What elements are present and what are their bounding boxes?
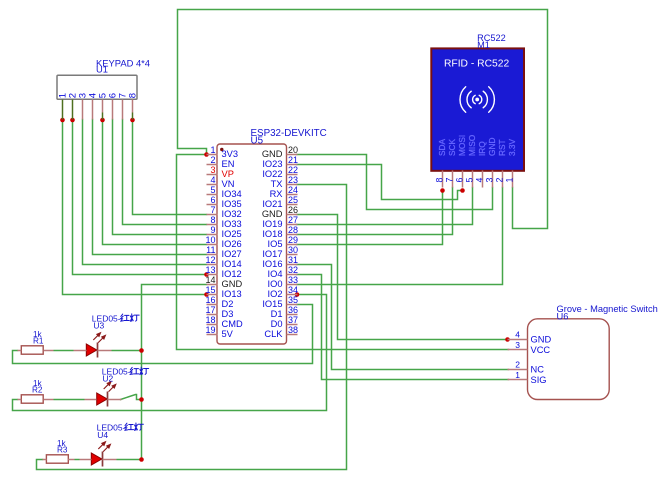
svg-text:NC: NC <box>531 364 545 374</box>
svg-text:U1: U1 <box>96 64 108 75</box>
svg-text:U4: U4 <box>97 430 108 440</box>
svg-text:14: 14 <box>205 275 215 285</box>
svg-text:MOSI: MOSI <box>457 135 467 156</box>
svg-text:GND: GND <box>262 149 283 159</box>
svg-text:SDA: SDA <box>437 138 447 156</box>
svg-text:CMD: CMD <box>222 319 243 329</box>
svg-text:GND: GND <box>222 279 243 289</box>
svg-text:4: 4 <box>475 178 485 183</box>
svg-text:D2: D2 <box>222 299 234 309</box>
svg-text:IO22: IO22 <box>262 169 282 179</box>
svg-text:1: 1 <box>515 370 520 380</box>
svg-text:M1: M1 <box>477 40 490 50</box>
svg-text:IO21: IO21 <box>262 199 282 209</box>
svg-text:EN: EN <box>222 159 235 169</box>
svg-text:IRQ: IRQ <box>477 141 487 156</box>
svg-text:3: 3 <box>210 165 215 175</box>
svg-text:IO18: IO18 <box>262 229 282 239</box>
svg-text:6: 6 <box>455 178 465 183</box>
svg-text:10: 10 <box>205 235 215 245</box>
svg-text:3.3V: 3.3V <box>507 138 517 156</box>
svg-text:IO26: IO26 <box>222 239 242 249</box>
svg-text:RX: RX <box>270 189 283 199</box>
svg-text:18: 18 <box>205 315 215 325</box>
svg-text:IO5: IO5 <box>268 239 283 249</box>
svg-text:IO14: IO14 <box>222 259 242 269</box>
svg-text:23: 23 <box>288 175 298 185</box>
svg-text:36: 36 <box>288 305 298 315</box>
svg-text:2: 2 <box>495 178 505 183</box>
svg-text:5: 5 <box>210 185 215 195</box>
svg-text:IO25: IO25 <box>222 229 242 239</box>
svg-text:8: 8 <box>435 178 445 183</box>
svg-text:28: 28 <box>288 225 298 235</box>
svg-text:22: 22 <box>288 165 298 175</box>
svg-text:GND: GND <box>262 209 283 219</box>
svg-text:5V: 5V <box>222 329 234 339</box>
svg-text:IO23: IO23 <box>262 159 282 169</box>
svg-text:SCK: SCK <box>447 138 457 156</box>
svg-text:4: 4 <box>515 330 520 340</box>
svg-text:20: 20 <box>288 145 298 155</box>
svg-text:13: 13 <box>205 265 215 275</box>
svg-text:IO35: IO35 <box>222 199 242 209</box>
svg-text:9: 9 <box>210 225 215 235</box>
svg-text:IO2: IO2 <box>268 289 283 299</box>
svg-text:IO34: IO34 <box>222 189 242 199</box>
svg-text:U2: U2 <box>102 374 113 384</box>
svg-text:2: 2 <box>515 360 520 370</box>
svg-text:GND: GND <box>487 138 497 156</box>
svg-text:11: 11 <box>206 245 215 255</box>
svg-text:IO4: IO4 <box>268 269 283 279</box>
svg-text:U5: U5 <box>251 135 264 146</box>
svg-text:IO19: IO19 <box>262 219 282 229</box>
svg-text:3V3: 3V3 <box>222 149 239 159</box>
svg-text:MISO: MISO <box>467 134 477 156</box>
svg-text:8: 8 <box>127 93 138 98</box>
svg-text:3: 3 <box>515 340 520 350</box>
svg-text:7: 7 <box>445 178 455 183</box>
svg-text:SIG: SIG <box>531 375 547 385</box>
svg-text:27: 27 <box>288 215 298 225</box>
svg-text:5: 5 <box>465 178 475 183</box>
svg-text:35: 35 <box>288 295 298 305</box>
svg-text:19: 19 <box>205 325 215 335</box>
svg-text:TX: TX <box>271 179 283 189</box>
svg-text:34: 34 <box>288 285 298 295</box>
svg-text:U6: U6 <box>557 311 569 321</box>
svg-text:RFID - RC522: RFID - RC522 <box>444 59 509 70</box>
svg-text:8: 8 <box>210 215 215 225</box>
svg-text:IO27: IO27 <box>222 249 242 259</box>
svg-text:D0: D0 <box>271 319 283 329</box>
svg-text:RST: RST <box>497 139 507 156</box>
svg-text:IO17: IO17 <box>262 249 282 259</box>
svg-text:4: 4 <box>210 175 215 185</box>
svg-text:29: 29 <box>288 235 298 245</box>
svg-text:25: 25 <box>288 195 298 205</box>
svg-text:IO16: IO16 <box>262 259 282 269</box>
svg-text:15: 15 <box>205 285 215 295</box>
svg-text:21: 21 <box>288 155 298 165</box>
svg-text:IO13: IO13 <box>222 289 242 299</box>
svg-text:30: 30 <box>288 245 298 255</box>
svg-text:7: 7 <box>210 205 215 215</box>
svg-text:33: 33 <box>288 275 298 285</box>
svg-text:VN: VN <box>222 179 235 189</box>
svg-text:IO32: IO32 <box>222 209 242 219</box>
svg-text:2: 2 <box>210 155 215 165</box>
svg-text:IO12: IO12 <box>222 269 242 279</box>
svg-text:U3: U3 <box>93 320 104 330</box>
svg-text:1: 1 <box>210 145 215 155</box>
svg-text:31: 31 <box>288 255 298 265</box>
svg-text:D1: D1 <box>271 309 283 319</box>
svg-text:37: 37 <box>288 315 298 325</box>
svg-text:VCC: VCC <box>531 345 551 355</box>
svg-text:VP: VP <box>222 169 234 179</box>
svg-text:IO15: IO15 <box>262 299 282 309</box>
svg-text:12: 12 <box>205 255 215 265</box>
svg-text:16: 16 <box>205 295 215 305</box>
svg-text:IO0: IO0 <box>268 279 283 289</box>
svg-text:GND: GND <box>531 334 552 344</box>
svg-text:32: 32 <box>288 265 298 275</box>
svg-text:3: 3 <box>485 178 495 183</box>
svg-text:R3: R3 <box>57 446 68 455</box>
svg-text:CLK: CLK <box>264 329 283 339</box>
svg-text:Grove - Magnetic Switch: Grove - Magnetic Switch <box>557 304 658 314</box>
svg-text:R1: R1 <box>33 337 44 346</box>
svg-text:26: 26 <box>288 205 298 215</box>
svg-text:17: 17 <box>205 305 215 315</box>
svg-text:6: 6 <box>210 195 215 205</box>
svg-text:IO33: IO33 <box>222 219 242 229</box>
svg-text:24: 24 <box>288 185 298 195</box>
svg-text:R2: R2 <box>32 386 43 395</box>
svg-text:D3: D3 <box>222 309 234 319</box>
svg-text:1: 1 <box>505 178 515 183</box>
svg-text:38: 38 <box>288 325 298 335</box>
